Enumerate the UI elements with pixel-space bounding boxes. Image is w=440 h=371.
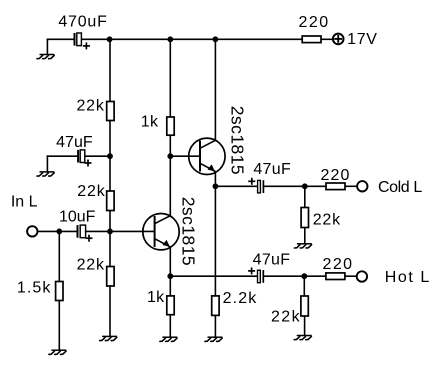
resistor R5 1.5k <box>56 282 63 301</box>
resistor R9 220 (cold) <box>326 183 345 190</box>
wire 22k#1 to node B <box>109 120 111 156</box>
capacitor C3 10uF (thin plate + box plate) <box>78 225 86 238</box>
svg-text:47uF: 47uF <box>56 134 93 151</box>
ground G4 (below R4) <box>100 336 117 340</box>
resistor R2 22k (upper left) <box>107 102 114 121</box>
polarity + of C3 <box>86 235 93 242</box>
ground G6 (below 2.2k) <box>205 337 222 341</box>
svg-text:47uF: 47uF <box>253 161 291 178</box>
junction node G (Q1 emitter) <box>167 273 173 279</box>
capacitor C5 47uF hot (box plate + thin plate) <box>258 270 264 283</box>
wire 1.5k to ground <box>58 300 60 350</box>
wire ground corner to 47uF <box>47 155 79 157</box>
resistor R1 220 (horizontal box) <box>302 36 321 43</box>
svg-text:220: 220 <box>298 14 329 31</box>
polarity + of C2 <box>85 160 92 167</box>
wire 22k#3 to ground <box>109 286 111 336</box>
svg-text:22k: 22k <box>313 212 341 229</box>
wire cold node to 22k <box>304 186 306 207</box>
wire 2.2k to ground <box>214 315 216 337</box>
junction node A2 (rail/1k) <box>167 36 173 42</box>
ground G5 (below R8) <box>160 337 177 341</box>
svg-text:22k: 22k <box>77 256 105 273</box>
svg-text:In L: In L <box>11 194 38 211</box>
svg-text:22k: 22k <box>76 98 104 115</box>
polarity + of C4 <box>248 178 255 185</box>
svg-text:2.2k: 2.2k <box>223 290 258 307</box>
wire C4 to cold node <box>263 185 304 187</box>
junction node In/1.5k <box>56 229 62 235</box>
junction node A1 (rail/22k) <box>107 36 113 42</box>
ground G1 (470uF) <box>37 55 54 59</box>
wire Q2 emitter node down to 2.2k (crosses hot wire) <box>214 186 216 296</box>
junction node F (cold out) <box>302 183 308 189</box>
wire node D to Q2 base <box>170 155 200 157</box>
wire ground stem (47uF row) <box>46 155 48 171</box>
wire node B to 22k#2 <box>109 156 111 191</box>
resistor R4 22k (lower left) <box>107 267 114 287</box>
capacitor C1 470uF (thin plate + box plate) <box>75 33 82 46</box>
capacitor C2 47uF (thin plate + box plate) <box>78 150 85 163</box>
input terminal In L <box>27 226 37 236</box>
resistor R12 22k (hot load) <box>301 296 308 316</box>
polarity + of C1 <box>83 42 90 49</box>
wire hot 22k to ground <box>304 316 306 336</box>
ground G3 (below 1.5k) <box>49 350 66 354</box>
wire top rail from ground corner to 470uF <box>47 38 75 40</box>
wire Q2 emitter node to C4 <box>215 185 257 187</box>
svg-text:1k: 1k <box>147 289 165 306</box>
svg-text:2sc1815: 2sc1815 <box>179 197 199 266</box>
output terminal Hot L <box>357 271 367 281</box>
junction node A3 (rail/Q2 collector) <box>213 36 219 42</box>
wire hot node to 22k <box>303 276 305 296</box>
wire hot 220 to terminal <box>345 275 357 277</box>
junction node D (1k/Q1 collector/Q2 base) <box>167 153 173 159</box>
wire Q1 emitter down to hot node <box>169 247 171 277</box>
junction node C (10uF/22k) <box>107 229 113 235</box>
wire top rail 470uF to 220 resistor <box>81 38 303 40</box>
resistor R10 22k (cold load) <box>301 208 308 228</box>
wire Q2 collector to top rail <box>214 39 216 140</box>
wire Q2 emitter to cold node <box>214 171 216 186</box>
resistor R11 220 (hot) <box>326 273 345 280</box>
wire C2 to node B <box>84 155 110 157</box>
resistor R7 2.2k <box>212 296 219 316</box>
ground G7 (cold) <box>294 244 311 248</box>
wire 1k to node D <box>169 135 171 156</box>
ground G8 (hot) <box>294 336 311 340</box>
polarity + of C5 <box>248 267 255 274</box>
power terminal +17V <box>333 34 344 45</box>
transistor Q2 2sc1815 (NPN) <box>189 138 225 174</box>
wire C5 to hot node <box>263 275 304 277</box>
svg-text:22k: 22k <box>77 183 105 200</box>
transistor Q1 2sc1815 (NPN) <box>143 214 179 250</box>
svg-text:1.5k: 1.5k <box>17 279 52 296</box>
wire hot node to 1k lower <box>169 276 171 296</box>
svg-text:Hot L: Hot L <box>385 269 431 286</box>
wire 1k lower to ground <box>169 315 171 338</box>
wire 10uF to Q1 base <box>85 230 155 232</box>
resistor R6 1k (upper) <box>167 117 174 135</box>
svg-text:220: 220 <box>321 167 351 184</box>
svg-text:220: 220 <box>322 256 353 273</box>
svg-text:17V: 17V <box>347 31 378 48</box>
resistor R8 1k (lower) <box>167 296 174 315</box>
wire hot node to 220 <box>304 275 326 277</box>
svg-text:Cold L: Cold L <box>378 179 422 196</box>
svg-text:22k: 22k <box>271 308 301 325</box>
wire cold node to 220 <box>305 185 327 187</box>
svg-text:47uF: 47uF <box>253 251 291 268</box>
svg-text:470uF: 470uF <box>58 14 107 31</box>
wire node C to 22k#3 <box>109 231 111 266</box>
junction node B (47uF/22k) <box>107 153 113 159</box>
resistor R3 22k (mid left) <box>107 191 114 211</box>
wire cold 220 to terminal <box>345 185 357 187</box>
capacitor C4 47uF cold (box plate + thin plate) <box>258 180 264 193</box>
svg-text:10uF: 10uF <box>59 209 96 226</box>
ground G2 (47uF) <box>37 172 54 176</box>
wire Q1 collector to node D <box>169 156 171 215</box>
wire node to 1.5k <box>58 231 60 281</box>
wire left column rail to 22k#1 <box>109 39 111 101</box>
wire top rail to 1k <box>169 39 171 117</box>
junction node H (hot out) <box>301 273 307 279</box>
wire ground stem top-left <box>46 39 48 55</box>
wire cold 22k to ground <box>304 227 306 243</box>
wire 22k#2 to node C <box>109 210 111 231</box>
wire In L terminal to 10uF <box>38 230 78 232</box>
svg-text:2sc1815: 2sc1815 <box>227 106 247 175</box>
wire Q1 emitter node to C5 <box>170 275 257 277</box>
wire 220 resistor to 17V terminal <box>321 38 334 40</box>
junction node E (Q2 emitter) <box>213 183 219 189</box>
svg-text:1k: 1k <box>141 114 159 131</box>
output terminal Cold L <box>357 181 367 191</box>
